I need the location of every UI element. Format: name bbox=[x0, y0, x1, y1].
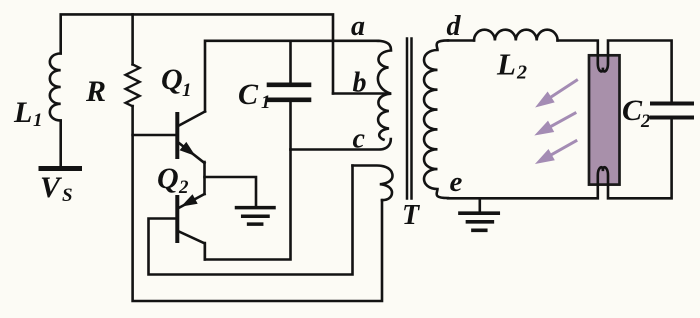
ground (right) bbox=[478, 198, 481, 212]
wire Q2 base feedback bbox=[149, 166, 353, 275]
svg-text:b: b bbox=[353, 68, 367, 99]
wire top rail bbox=[61, 14, 333, 93]
fluorescent lamp tube bbox=[589, 55, 620, 184]
svg-text:c: c bbox=[353, 124, 366, 155]
svg-text:Q: Q bbox=[157, 162, 179, 195]
svg-text:1: 1 bbox=[261, 92, 271, 113]
transformer primary winding b-c bbox=[378, 94, 390, 140]
transformer feedback winding bbox=[353, 166, 393, 201]
svg-text:2: 2 bbox=[640, 111, 651, 132]
inductor L2 bbox=[474, 30, 558, 41]
svg-text:1: 1 bbox=[182, 80, 192, 101]
svg-text:S: S bbox=[62, 185, 73, 206]
wire emitter junction bbox=[203, 162, 206, 194]
svg-text:V: V bbox=[40, 171, 63, 204]
wire R vertical bbox=[133, 14, 382, 301]
svg-text:d: d bbox=[447, 11, 462, 42]
transformer primary winding a-b bbox=[378, 41, 391, 93]
svg-text:Q: Q bbox=[161, 63, 183, 96]
svg-text:L: L bbox=[13, 96, 32, 129]
svg-text:e: e bbox=[450, 166, 463, 198]
svg-text:C: C bbox=[622, 94, 643, 127]
wire L1 bottom bbox=[59, 121, 62, 167]
node C1-c-Q2 vertical bbox=[205, 150, 291, 260]
transistor Q2 bbox=[177, 194, 205, 260]
transistor Q1 bbox=[177, 112, 205, 164]
transformer secondary winding bbox=[424, 40, 448, 198]
wire to ground left bbox=[205, 177, 257, 206]
resistor R bbox=[126, 64, 140, 106]
transformer core bbox=[407, 39, 412, 199]
capacitor C2 bbox=[652, 104, 692, 118]
wire b bbox=[333, 92, 390, 95]
light ray arrow bbox=[547, 112, 576, 128]
capacitor C1 bbox=[269, 41, 309, 150]
wire d rail + lamp top electrode bbox=[448, 41, 672, 102]
wire Q1 base bbox=[133, 134, 176, 137]
inductor L1 bbox=[50, 54, 61, 121]
light ray arrow bbox=[548, 140, 578, 157]
ground (left) bbox=[237, 208, 275, 225]
svg-text:1: 1 bbox=[33, 110, 43, 131]
svg-text:a: a bbox=[351, 11, 365, 42]
wire a bbox=[205, 41, 378, 112]
svg-text:C: C bbox=[238, 78, 259, 111]
svg-text:R: R bbox=[85, 75, 106, 108]
svg-text:L: L bbox=[496, 47, 516, 82]
svg-text:2: 2 bbox=[178, 177, 189, 198]
svg-text:2: 2 bbox=[516, 62, 527, 84]
source VS terminal bar bbox=[41, 166, 80, 171]
wire e rail + lamp bottom electrode bbox=[448, 120, 672, 199]
svg-text:T: T bbox=[402, 200, 421, 231]
light ray arrow bbox=[547, 80, 577, 100]
wire c bbox=[291, 139, 391, 150]
